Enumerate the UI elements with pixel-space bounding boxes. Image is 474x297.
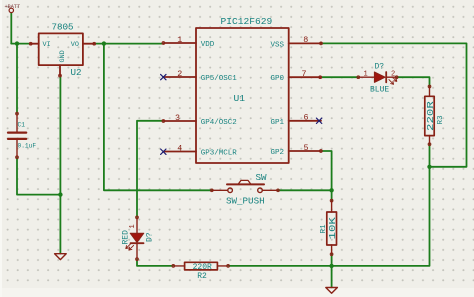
junction xyxy=(102,41,106,45)
resistor R3 220R xyxy=(425,87,434,145)
svg-text:0.1uF: 0.1uF xyxy=(18,143,37,150)
wire blue LED to R3 xyxy=(397,77,430,86)
svg-text:VO: VO xyxy=(71,41,79,49)
svg-text:2: 2 xyxy=(391,71,395,79)
switch SW xyxy=(212,180,278,192)
svg-text:R3: R3 xyxy=(437,115,445,125)
wire GP0 to blue LED xyxy=(320,76,358,78)
svg-text:220R: 220R xyxy=(426,101,436,131)
resistor R1 10K xyxy=(327,201,337,255)
svg-text:5: 5 xyxy=(304,143,309,153)
svg-text:3: 3 xyxy=(175,113,180,123)
LED D? red xyxy=(126,217,144,259)
power symbol +BATT xyxy=(9,8,13,12)
junction xyxy=(15,41,19,45)
wire R3 bottom junction xyxy=(321,43,467,166)
svg-text:R1: R1 xyxy=(320,224,328,234)
junction xyxy=(329,188,333,192)
svg-text:R2: R2 xyxy=(197,272,207,281)
svg-text:GP0: GP0 xyxy=(271,75,285,83)
pin end dot xyxy=(29,42,32,45)
svg-text:6: 6 xyxy=(304,113,309,123)
svg-text:1: 1 xyxy=(364,71,368,79)
svg-text:8: 8 xyxy=(303,35,308,45)
wire R2 to ground corner xyxy=(228,167,429,266)
wire VO to VDD xyxy=(94,43,163,45)
wire R1 bottom to ground xyxy=(331,254,333,287)
wire C1 bottom to ground rail xyxy=(17,157,60,194)
svg-text:7: 7 xyxy=(302,69,307,79)
wire red LED to R2 xyxy=(137,259,173,266)
svg-text:GP2: GP2 xyxy=(271,149,285,157)
svg-text:7805: 7805 xyxy=(52,22,74,33)
svg-text:U2: U2 xyxy=(71,67,82,78)
ground (7805 net) xyxy=(55,254,67,260)
svg-text:4: 4 xyxy=(177,143,182,153)
wire switch to GP2 net xyxy=(278,189,332,191)
IC U1 PIC12F629 xyxy=(163,28,321,163)
svg-text:GP3/MCLR: GP3/MCLR xyxy=(201,150,238,158)
svg-text:D?: D? xyxy=(146,232,155,242)
wire GP4 to red LED xyxy=(137,121,163,218)
LED D? blue xyxy=(358,72,397,84)
svg-text:1: 1 xyxy=(129,224,137,228)
wire 7805 GND down to ground xyxy=(59,76,61,254)
svg-text:SW_PUSH: SW_PUSH xyxy=(226,196,265,207)
svg-text:GP4/OSC2: GP4/OSC2 xyxy=(201,119,237,127)
wire switch branch xyxy=(104,44,212,191)
capacitor C1 xyxy=(8,114,26,158)
junction xyxy=(427,165,431,169)
svg-text:GP1: GP1 xyxy=(271,119,285,127)
resistor R2 220R xyxy=(173,262,228,270)
wire C1 branch down xyxy=(16,44,18,114)
svg-text:GND: GND xyxy=(59,50,67,62)
no-connect pin 6 xyxy=(316,118,321,123)
svg-text:1: 1 xyxy=(177,35,182,45)
svg-text:2: 2 xyxy=(177,69,182,79)
svg-text:RED: RED xyxy=(122,230,131,245)
svg-text:BLUE: BLUE xyxy=(370,86,389,95)
regulator U2 7805 xyxy=(31,33,94,75)
svg-text:U1: U1 xyxy=(234,93,246,104)
wire +BATT to VI xyxy=(11,43,30,45)
no-connect pin 4 xyxy=(161,149,166,154)
svg-text:+BATT: +BATT xyxy=(5,4,21,10)
wire GP2 to R1 xyxy=(321,151,332,201)
no-connect pin 2 xyxy=(161,74,166,79)
svg-text:VDD: VDD xyxy=(201,41,215,49)
ground (main) xyxy=(326,288,338,294)
svg-text:C1: C1 xyxy=(18,122,26,129)
svg-text:220R: 220R xyxy=(193,263,212,272)
svg-text:VI: VI xyxy=(43,41,51,49)
svg-text:D?: D? xyxy=(375,63,385,72)
wire +BATT down xyxy=(10,13,12,44)
svg-text:PIC12F629: PIC12F629 xyxy=(221,16,273,27)
svg-text:GP5/OSC1: GP5/OSC1 xyxy=(201,75,238,83)
svg-text:SW: SW xyxy=(256,172,268,183)
svg-text:VSS: VSS xyxy=(271,41,285,49)
svg-text:10K: 10K xyxy=(328,217,338,240)
junction xyxy=(58,192,62,196)
junction xyxy=(329,264,333,268)
